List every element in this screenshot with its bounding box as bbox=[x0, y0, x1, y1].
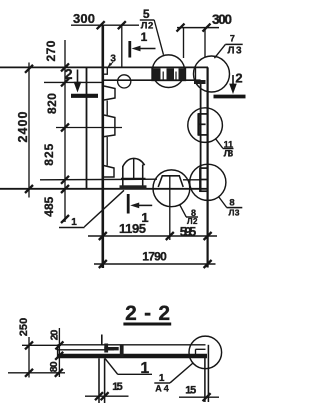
svg-text:250: 250 bbox=[18, 318, 30, 337]
svg-text:Л3: Л3 bbox=[229, 207, 240, 217]
svg-text:2400: 2400 bbox=[16, 111, 30, 142]
svg-text:825: 825 bbox=[42, 143, 56, 165]
svg-text:1: 1 bbox=[140, 360, 149, 377]
svg-text:5: 5 bbox=[143, 7, 150, 21]
svg-text:270: 270 bbox=[44, 40, 58, 61]
svg-text:Л3: Л3 bbox=[224, 148, 234, 159]
svg-text:820: 820 bbox=[45, 93, 59, 114]
svg-text:15: 15 bbox=[112, 381, 123, 393]
svg-text:20: 20 bbox=[49, 329, 61, 340]
svg-text:300: 300 bbox=[212, 12, 232, 27]
svg-text:80: 80 bbox=[48, 361, 60, 372]
svg-text:485: 485 bbox=[42, 196, 56, 216]
svg-text:3: 3 bbox=[110, 53, 116, 64]
svg-text:300: 300 bbox=[73, 11, 95, 26]
svg-text:2: 2 bbox=[235, 70, 242, 85]
svg-text:15: 15 bbox=[185, 385, 196, 397]
svg-text:1: 1 bbox=[71, 217, 77, 228]
svg-text:1: 1 bbox=[141, 30, 148, 44]
svg-text:2: 2 bbox=[64, 67, 72, 83]
svg-text:595: 595 bbox=[180, 225, 197, 239]
svg-text:1195: 1195 bbox=[119, 221, 146, 236]
svg-text:7: 7 bbox=[230, 34, 235, 44]
svg-text:2-2: 2-2 bbox=[125, 302, 170, 325]
svg-text:1790: 1790 bbox=[142, 250, 167, 264]
